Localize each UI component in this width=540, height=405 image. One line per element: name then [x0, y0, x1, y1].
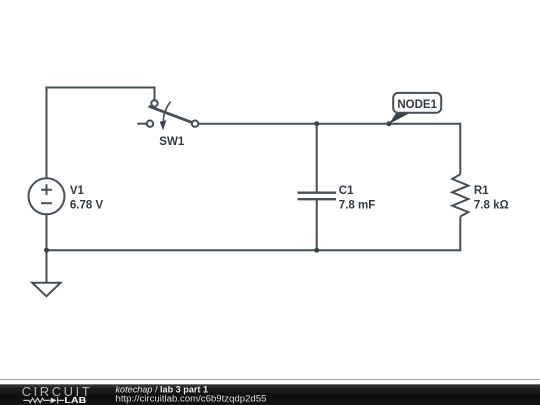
footer separator rule [0, 379, 540, 380]
wire C1 bottom branch [316, 200, 318, 251]
wire left vertical from top corner to V1 top [46, 87, 48, 178]
wire main horizontal from SW1 to top-right corner [198, 123, 460, 125]
capacitor C1 [298, 193, 337, 200]
footer title line [116, 384, 209, 394]
resistor R1 [452, 174, 468, 216]
label SW1 [159, 136, 185, 148]
wire C1 top branch [316, 124, 318, 193]
value 7.8 kOhm [474, 199, 509, 211]
footer CircuitLab logo [22, 384, 90, 405]
footer url line [116, 394, 267, 405]
junction at V1 bottom [44, 248, 49, 253]
label R1 [474, 185, 489, 197]
wire V1 bottom to ground node [46, 215, 48, 251]
svg-text:6.78 V: 6.78 V [70, 199, 104, 211]
wire ground drop [46, 250, 48, 283]
svg-text:7.8 mF: 7.8 mF [339, 199, 375, 211]
wire bottom horizontal rail [47, 249, 461, 251]
svg-text:NODE1: NODE1 [397, 99, 437, 111]
wire R1 bottom lead [459, 217, 461, 252]
svg-text:http://circuitlab.com/c6b9tzqd: http://circuitlab.com/c6b9tzqdp2d55 [116, 394, 267, 405]
svg-text:C1: C1 [339, 185, 354, 197]
svg-text:7.8 kΩ: 7.8 kΩ [474, 199, 509, 211]
svg-text:SW1: SW1 [159, 136, 185, 148]
wire top horizontal from V1 to SW1 [47, 87, 155, 89]
voltage source V1 [29, 178, 65, 214]
svg-text:LAB: LAB [64, 395, 86, 405]
wire R1 top lead [459, 123, 461, 175]
label C1 [339, 185, 354, 197]
value 6.78 V [70, 199, 104, 211]
svg-text:V1: V1 [70, 185, 85, 197]
label V1 [70, 185, 85, 197]
svg-text:R1: R1 [474, 185, 489, 197]
wire SW1 drop from top corner to switch terminal [154, 87, 156, 101]
junction at C1 bottom [314, 248, 319, 253]
switch SW1 [137, 100, 198, 130]
junction at C1 top [314, 121, 319, 126]
ground [32, 283, 60, 297]
value 7.8 mF [339, 199, 375, 211]
node NODE1 callout [389, 93, 441, 124]
footer bar [0, 384, 540, 405]
junction at NODE1 [387, 121, 392, 126]
